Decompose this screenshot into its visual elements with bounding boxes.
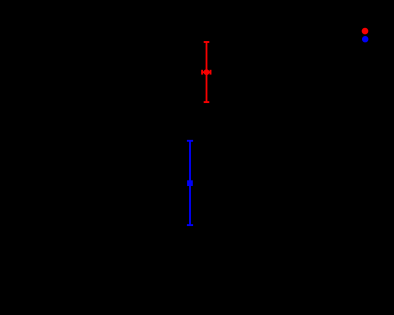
red series: right cap [210,70,212,75]
legend: red marker sample [362,28,369,35]
legend: blue marker sample [362,36,368,42]
red series: circle marker [204,69,210,75]
blue series: top cap [187,140,193,142]
red series: left cap [201,70,203,75]
red series: horizontal x-error line [202,71,210,73]
red series: bottom cap [204,101,210,103]
blue series errorbar: vertical y-error line [189,141,191,225]
red series: top cap [204,41,210,43]
red series errorbar: vertical y-error line [206,42,208,102]
blue series: bottom cap [187,224,193,226]
blue series: square marker [187,180,193,186]
